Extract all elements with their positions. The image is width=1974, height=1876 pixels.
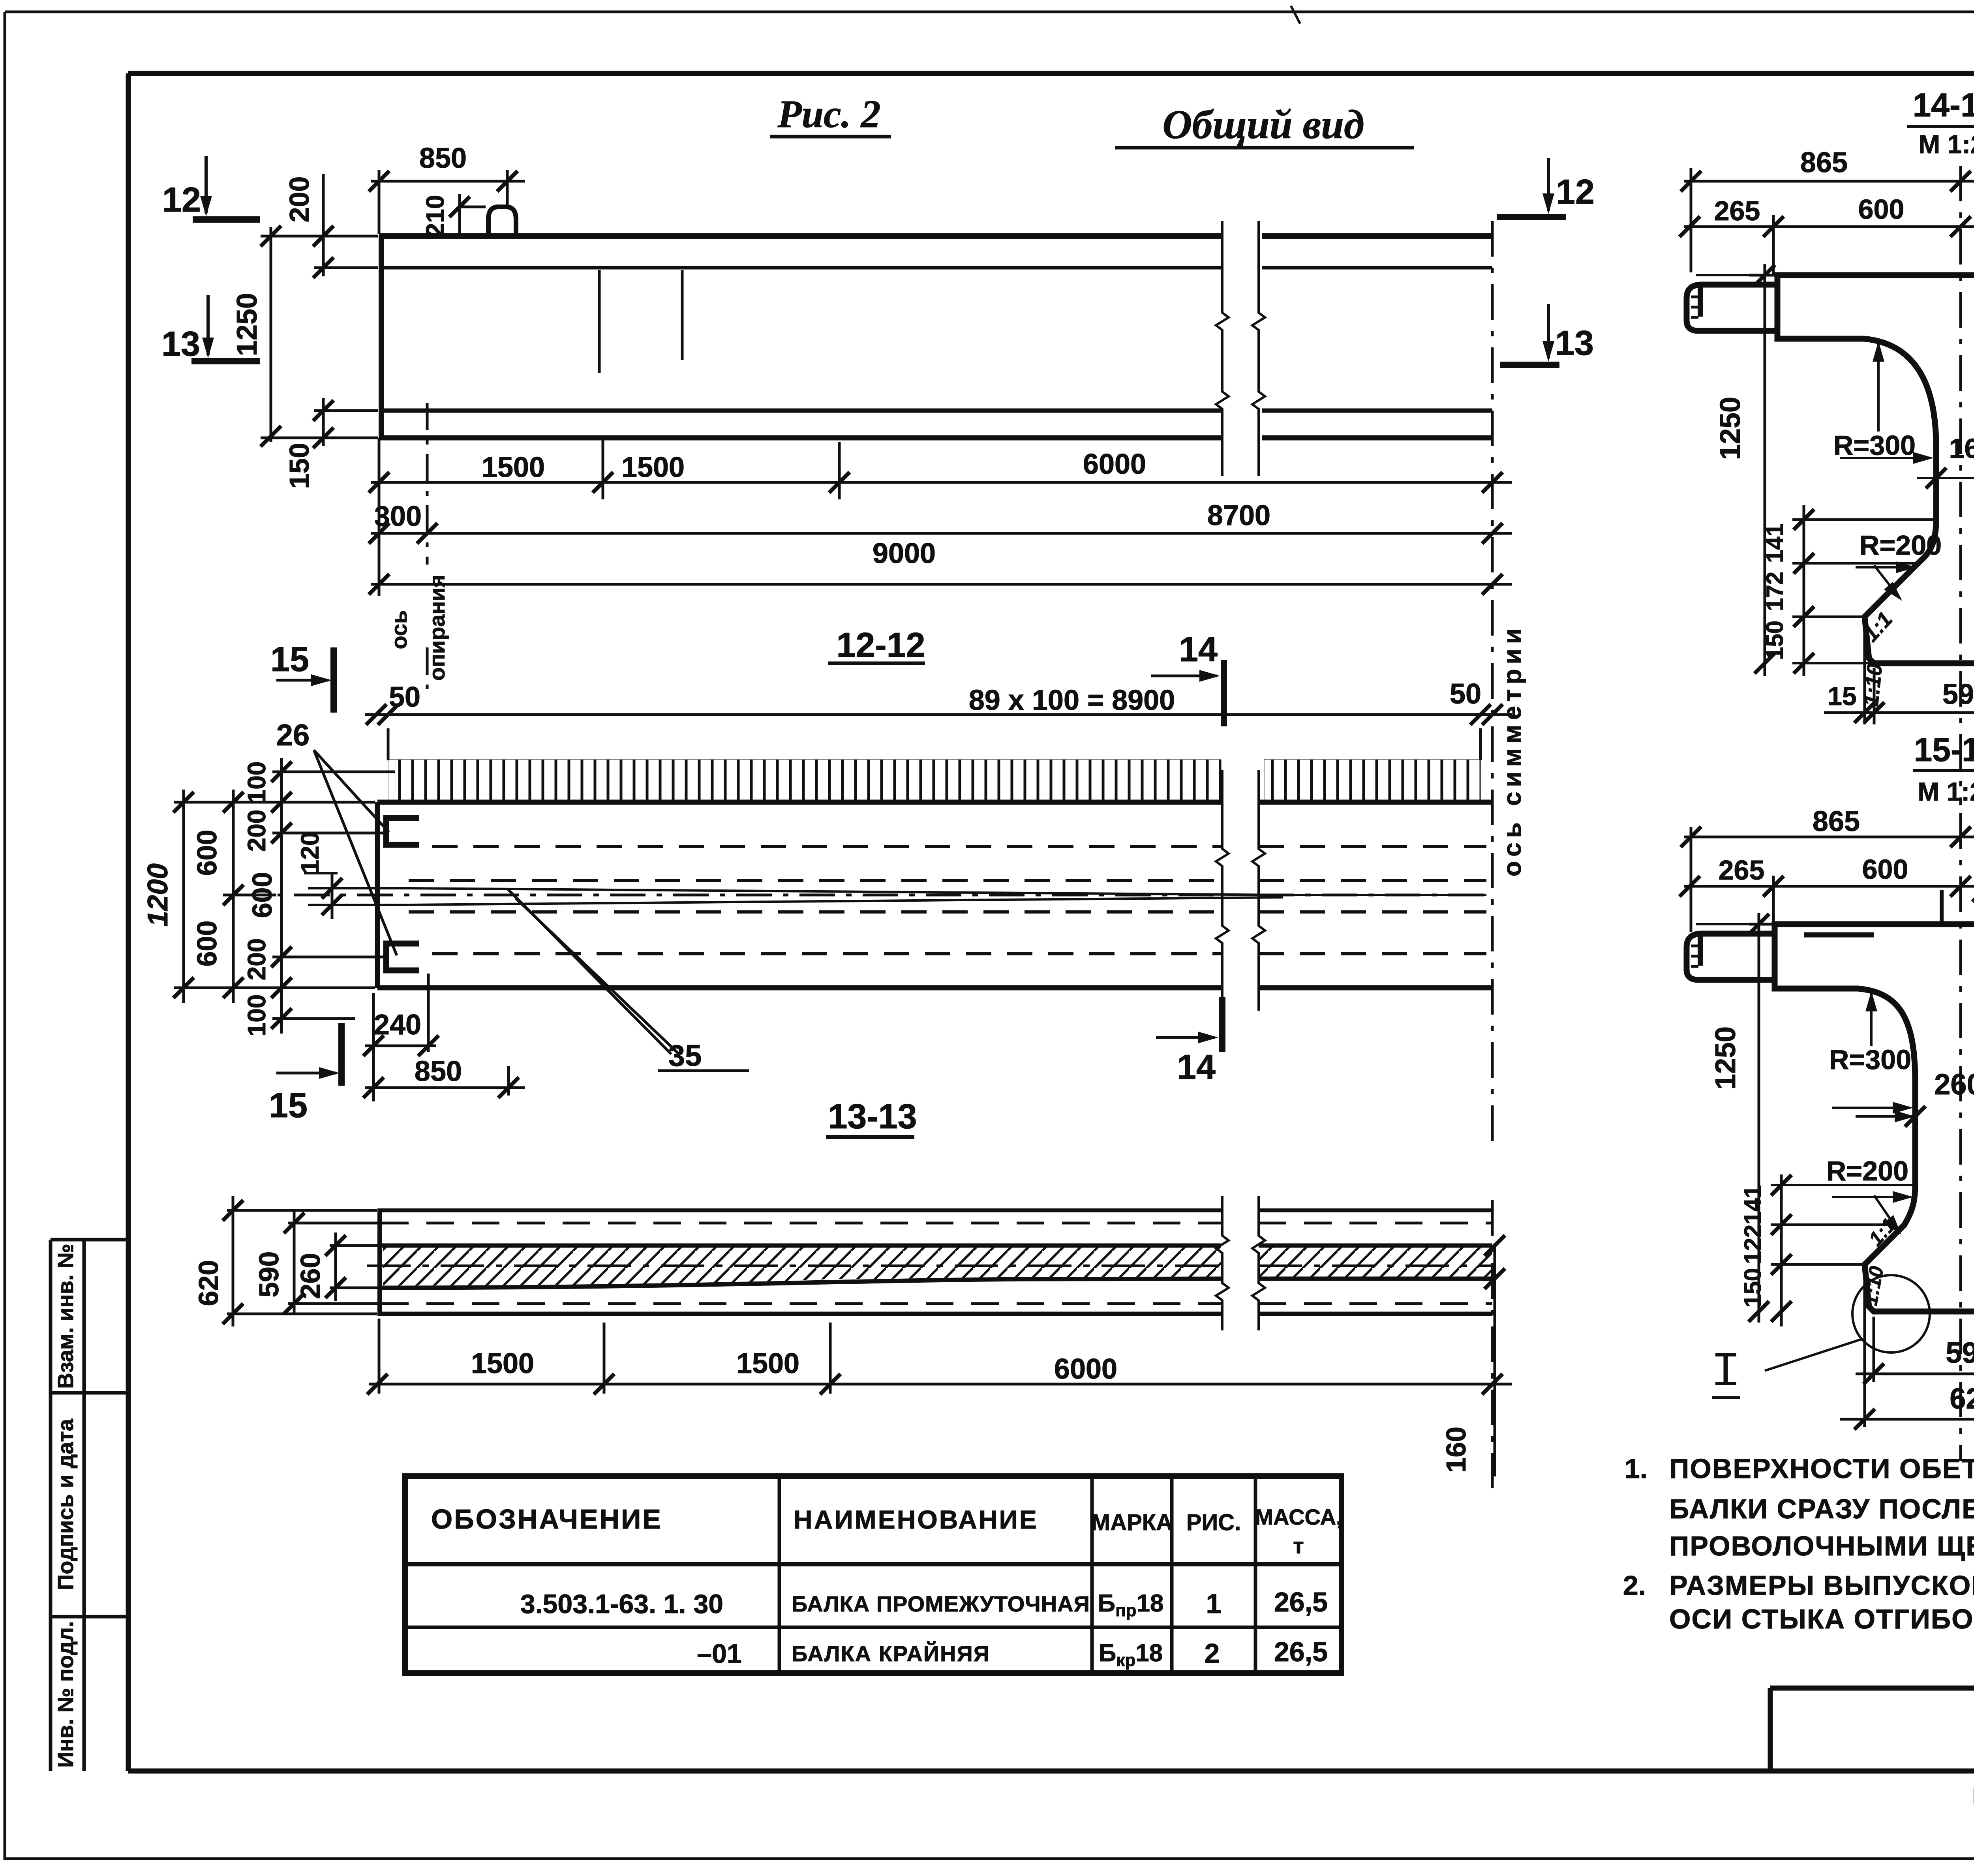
svg-text:1500: 1500 [482,452,545,483]
svg-text:200: 200 [242,938,271,981]
svg-text:3.503.1-63. 1. 30: 3.503.1-63. 1. 30 [520,1589,723,1619]
svg-text:865: 865 [1800,147,1848,178]
svg-text:100: 100 [242,762,271,804]
svg-text:14-14: 14-14 [1913,86,1974,124]
svg-text:РИС.: РИС. [1186,1510,1241,1535]
svg-text:МАССА,: МАССА, [1255,1505,1342,1529]
svg-text:1500: 1500 [621,452,685,483]
svg-text:R=200: R=200 [1860,530,1942,561]
svg-text:1200: 1200 [142,863,174,927]
svg-text:89 x 100 = 8900: 89 x 100 = 8900 [969,685,1175,716]
svg-text:1250: 1250 [1715,397,1746,460]
svg-text:12-12: 12-12 [836,625,925,664]
svg-text:Подпись и дата: Подпись и дата [53,1418,78,1590]
svg-text:620: 620 [193,1260,224,1306]
svg-text:1500: 1500 [471,1348,534,1379]
svg-text:БАЛКА КРАЙНЯЯ: БАЛКА КРАЙНЯЯ [792,1641,990,1666]
svg-text:Инв. № подл.: Инв. № подл. [53,1621,78,1768]
svg-text:620: 620 [1950,1382,1974,1415]
svg-text:т: т [1293,1533,1304,1558]
svg-text:260: 260 [295,1253,326,1299]
svg-text:МАРКА: МАРКА [1091,1510,1173,1535]
svg-text:850: 850 [415,1056,462,1087]
svg-text:1250: 1250 [231,293,263,356]
svg-text:15-15: 15-15 [1914,731,1974,768]
svg-text:ПРОВОЛОЧНЫМИ ЩЕТКАМИ.: ПРОВОЛОЧНЫМИ ЩЕТКАМИ. [1669,1531,1974,1561]
svg-text:R=300: R=300 [1829,1044,1911,1075]
svg-text:150: 150 [1739,1268,1766,1308]
svg-text:600: 600 [247,872,278,918]
svg-text:ОБОЗНАЧЕНИЕ: ОБОЗНАЧЕНИЕ [431,1504,662,1535]
svg-text:26: 26 [276,719,310,752]
svg-text:R=300: R=300 [1833,430,1916,461]
svg-text:РАЗМЕРЫ ВЫПУСКОВ АРМАТУРЫ ПЛИ: РАЗМЕРЫ ВЫПУСКОВ АРМАТУРЫ ПЛИТЫ УКАЗАНЫ … [1669,1570,1974,1601]
svg-text:ПОВЕРХНОСТИ ОБЕТОНИРУЕМЫХ БОКО: ПОВЕРХНОСТИ ОБЕТОНИРУЕМЫХ БОКОВЫХ ГРАНЕЙ… [1669,1453,1974,1484]
svg-text:300: 300 [374,501,422,532]
svg-text:–01: –01 [697,1639,741,1669]
svg-text:12: 12 [1556,172,1595,211]
svg-text:15: 15 [1828,681,1856,711]
svg-text:265: 265 [1719,855,1765,885]
svg-text:200: 200 [242,810,271,852]
svg-text:122: 122 [1739,1225,1766,1264]
svg-text:15: 15 [270,640,309,679]
svg-text:ось симметрии: ось симметрии [1498,624,1526,876]
svg-text:13: 13 [1555,323,1594,362]
svg-text:Рис. 2: Рис. 2 [777,92,880,136]
svg-text:ОСИ СТЫКА ОТГИБОВ.: ОСИ СТЫКА ОТГИБОВ. [1669,1604,1974,1634]
svg-text:КОПИРОВАЛ: КОПИРОВАЛ [1972,1783,1974,1809]
svg-text:14: 14 [1177,1047,1216,1086]
svg-text:590: 590 [253,1251,284,1298]
svg-text:14: 14 [1179,630,1218,669]
svg-text:160: 160 [1949,433,1974,464]
svg-text:БАЛКА ПРОМЕЖУТОЧНАЯ: БАЛКА ПРОМЕЖУТОЧНАЯ [792,1591,1090,1616]
svg-text:1250: 1250 [1710,1026,1741,1090]
svg-text:9000: 9000 [873,538,936,569]
svg-text:8700: 8700 [1207,500,1270,531]
svg-text:15: 15 [269,1086,308,1125]
svg-text:2.: 2. [1623,1570,1646,1601]
svg-text:265: 265 [1714,195,1760,226]
svg-text:141: 141 [1762,523,1788,563]
svg-text:R=200: R=200 [1826,1156,1908,1186]
svg-text:БАЛКИ СРАЗУ ПОСЛЕ РАСПАЛУБКИ О: БАЛКИ СРАЗУ ПОСЛЕ РАСПАЛУБКИ ОБРАБАТЫВАЮ… [1669,1493,1974,1524]
svg-text:120: 120 [296,832,324,874]
svg-text:200: 200 [284,176,315,223]
svg-text:150: 150 [284,443,315,489]
svg-text:260: 260 [1934,1068,1974,1101]
svg-text:210: 210 [421,195,449,237]
svg-text:141: 141 [1739,1185,1766,1225]
svg-text:М 1:20: М 1:20 [1918,777,1974,806]
svg-text:12: 12 [162,180,201,219]
svg-text:Общий вид: Общий вид [1162,102,1364,147]
svg-text:опирания: опирания [424,575,449,681]
svg-text:35: 35 [668,1039,702,1073]
svg-text:865: 865 [1813,806,1860,837]
svg-text:590: 590 [1946,1336,1974,1369]
svg-text:600: 600 [191,921,222,967]
svg-text:600: 600 [191,830,222,876]
svg-text:26,5: 26,5 [1274,1636,1328,1667]
svg-text:2: 2 [1205,1638,1220,1669]
svg-text:850: 850 [419,143,467,174]
svg-text:26,5: 26,5 [1274,1587,1328,1617]
svg-text:100: 100 [242,994,271,1037]
svg-text:13-13: 13-13 [828,1097,917,1136]
svg-text:ось: ось [387,610,411,649]
svg-text:600: 600 [1862,854,1908,885]
svg-text:172: 172 [1762,572,1788,611]
svg-text:160: 160 [1441,1427,1471,1473]
svg-text:1.: 1. [1625,1453,1648,1484]
svg-text:590: 590 [1942,679,1974,710]
svg-text:М 1:20: М 1:20 [1918,129,1974,159]
svg-text:НАИМЕНОВАНИЕ: НАИМЕНОВАНИЕ [794,1505,1038,1534]
svg-text:50: 50 [1450,678,1481,710]
svg-text:6000: 6000 [1083,448,1146,480]
svg-text:1500: 1500 [736,1348,799,1379]
svg-text:600: 600 [1858,194,1905,225]
svg-text:13: 13 [161,324,200,363]
svg-text:Взам. инв. №: Взам. инв. № [53,1244,78,1388]
svg-text:1: 1 [1206,1588,1222,1619]
svg-text:6000: 6000 [1054,1353,1117,1385]
